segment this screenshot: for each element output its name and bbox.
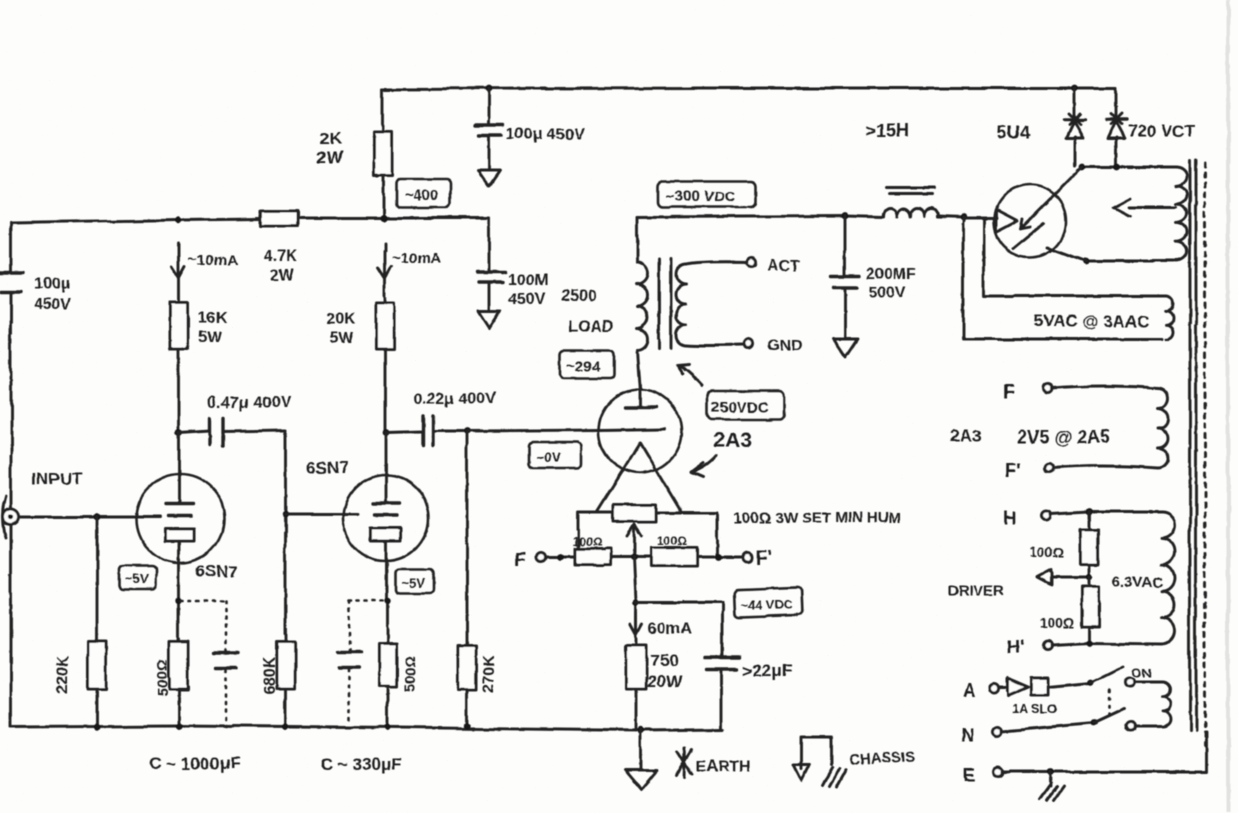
hum pot wiper arrow	[627, 525, 641, 557]
diode D2 triangle	[1107, 122, 1124, 139]
node F line left	[557, 554, 564, 561]
svg-text:680K: 680K	[261, 656, 278, 695]
wire V2 plate lead	[385, 433, 388, 502]
wire switch N to winding	[1134, 726, 1160, 729]
node 2K/4.7K/20K junction	[379, 214, 386, 221]
svg-text:100Ω: 100Ω	[657, 534, 687, 548]
5U4 plate diagonal lower	[1014, 224, 1086, 261]
coupling capacitor 0.47u 400V leads	[179, 430, 285, 433]
node F line right	[716, 554, 723, 561]
capacitor 100u 450V plates	[476, 125, 503, 135]
svg-text:1A SLO: 1A SLO	[1012, 701, 1058, 716]
svg-text:2W: 2W	[317, 148, 343, 167]
svg-text:~294: ~294	[566, 358, 600, 375]
node V2 cathode / bypass	[385, 598, 391, 604]
output transformer primary winding	[637, 262, 648, 350]
wire 680K / V2 grid node	[284, 430, 287, 729]
svg-text:~0V: ~0V	[536, 449, 562, 465]
triode V2 cathode	[371, 528, 401, 541]
wire bottom ground rail	[11, 726, 724, 731]
svg-text:~5V: ~5V	[402, 576, 426, 591]
tube 2A3 plate bar	[625, 405, 657, 408]
svg-text:2500: 2500	[561, 288, 597, 305]
svg-text:H: H	[1003, 508, 1016, 528]
wire V2 grid lead	[285, 513, 358, 516]
node rail 500ohm V2	[385, 725, 391, 731]
boxed label ~0V	[529, 442, 581, 468]
svg-text:~10mA: ~10mA	[188, 252, 238, 269]
svg-text:A: A	[962, 681, 975, 701]
node switch A pole	[1088, 679, 1095, 686]
terminal E	[994, 768, 1003, 777]
node rail 500ohm V1	[176, 724, 182, 730]
resistor R 750 20W body	[626, 645, 646, 689]
terminal A	[990, 684, 999, 693]
svg-text:5W: 5W	[329, 330, 354, 347]
capacitor 100u 450V (top) leads	[488, 89, 491, 171]
diode D1 lead	[1074, 88, 1075, 166]
boxed label ~300 VDC	[658, 181, 756, 207]
node rail 270K	[464, 723, 470, 729]
wire F to winding	[1052, 386, 1158, 388]
fuse 1A SLO triangle	[999, 686, 1007, 689]
node rail 220K	[94, 724, 100, 730]
wire top B+ rail	[383, 88, 1115, 89]
5U4 filament lead arrow	[963, 218, 997, 221]
node 270K / 2A3 grid	[464, 428, 471, 435]
resistor R 680K body	[276, 641, 294, 689]
current arrow 60mA	[630, 612, 642, 635]
chassis symbol staple	[801, 737, 831, 769]
tube 2A3 envelope	[598, 389, 682, 473]
svg-text:C ~ 1000μF: C ~ 1000μF	[150, 754, 240, 773]
svg-text:2V5 @ 2A5: 2V5 @ 2A5	[1017, 427, 1110, 447]
capacitor 100u 450V (mid) plates	[477, 272, 506, 282]
wire switch A to primary winding	[1134, 681, 1162, 684]
wire secondary GND lead	[686, 344, 744, 347]
terminal F'	[744, 553, 753, 562]
earth ground arrow	[625, 771, 657, 790]
node HV bottom	[1083, 258, 1090, 265]
wire N to switch	[1001, 723, 1094, 731]
svg-text:~5V: ~5V	[125, 572, 149, 587]
node V1 plate / coupling cap	[176, 430, 183, 437]
hum pot top line	[578, 513, 718, 557]
input jack terminal	[3, 509, 19, 525]
wire V1 plate lead	[178, 433, 181, 503]
fuse 1A SLO square	[1032, 678, 1049, 695]
node top rail / 100u cap	[486, 86, 493, 93]
wire E to transformer shield	[1002, 733, 1206, 772]
node HV top / D2	[1114, 164, 1121, 171]
resistor 100ohm upper leads	[1088, 512, 1091, 577]
resistor R 270K leads	[466, 431, 469, 726]
resistor R 270K body	[458, 645, 476, 689]
capacitor 100u 450V (mid) leads	[488, 218, 491, 311]
resistor R 4.7K 2W body	[260, 211, 298, 226]
triode V1 plate bar	[166, 502, 193, 505]
terminal F (2A3 filament)	[1044, 384, 1053, 393]
svg-text:2W: 2W	[270, 267, 295, 284]
node V2 plate / coupling cap 2	[383, 430, 390, 437]
terminal ACT	[747, 259, 756, 268]
capacitor 200MF 500V leads	[844, 216, 847, 338]
choke core lines	[886, 188, 934, 194]
output transformer core	[659, 259, 671, 348]
svg-text:INPUT: INPUT	[32, 469, 84, 488]
node H' 100ohm	[1086, 640, 1093, 647]
svg-text:N: N	[962, 724, 975, 744]
switch blade A	[1091, 666, 1124, 682]
node E ground	[1047, 769, 1054, 776]
transformer core dashed line	[1204, 163, 1207, 748]
capacitor C~1000uF dotted branch	[181, 601, 226, 727]
winding 2V5 2A5	[1158, 388, 1168, 468]
svg-text:C ~ 330μF: C ~ 330μF	[321, 755, 402, 774]
svg-text:~44 VDC: ~44 VDC	[740, 597, 794, 612]
ground hatch (E)	[1039, 772, 1063, 801]
svg-text:500Ω: 500Ω	[155, 659, 172, 696]
filament bus F-F'	[546, 556, 744, 559]
node rail cathode/earth	[637, 727, 645, 735]
svg-text:20K: 20K	[326, 311, 356, 328]
transformer core solid lines	[1190, 160, 1196, 731]
winding 6.3VAC	[1162, 512, 1175, 644]
triode V2 plate bar	[373, 501, 400, 504]
5VAC winding	[1166, 296, 1173, 339]
boxed label ~400	[396, 180, 450, 208]
capacitor 100u 450V (left) plates	[0, 273, 23, 292]
svg-text:500Ω: 500Ω	[402, 656, 419, 693]
resistor 100ohm (right) body	[651, 548, 697, 566]
chassis hatch	[822, 768, 846, 788]
svg-text:200MF: 200MF	[867, 265, 917, 282]
triode V2 6SN7 envelope	[343, 475, 429, 561]
switch blade N	[1094, 709, 1124, 723]
resistor R 500ohm (V2 cathode) body	[379, 643, 397, 687]
svg-text:F: F	[514, 550, 526, 571]
driver tap arrow	[1037, 569, 1089, 585]
ground arrow (200MF)	[833, 339, 857, 357]
primary winding	[1162, 682, 1170, 728]
capacitor C~330uF dotted branch	[349, 601, 388, 724]
triode V1 grid dashes	[168, 514, 191, 517]
chassis arrow	[793, 765, 809, 781]
svg-text:EARTH: EARTH	[696, 758, 751, 775]
node F line center	[630, 553, 637, 560]
svg-text:6SN7: 6SN7	[196, 562, 239, 581]
boxed label ~294	[560, 350, 614, 378]
capacitor C~1000uF plates	[214, 652, 238, 668]
svg-text:270K: 270K	[481, 653, 498, 692]
svg-text:2A3: 2A3	[713, 429, 752, 452]
terminal F'	[1045, 464, 1054, 473]
node driver tap	[1086, 574, 1092, 580]
wire cathode branch	[634, 557, 636, 731]
resistor R 220K body	[88, 641, 106, 689]
svg-text:2A3: 2A3	[950, 427, 981, 446]
svg-text:>22μF: >22μF	[743, 661, 793, 680]
HV center tap arrow	[1114, 199, 1176, 217]
capacitor 200MF plates	[830, 276, 860, 287]
svg-text:220K: 220K	[55, 655, 72, 694]
svg-text:750: 750	[650, 651, 678, 670]
svg-text:60mA: 60mA	[648, 621, 692, 638]
svg-text:720 VCT: 720 VCT	[1127, 122, 1195, 141]
diode D1 bar with cross	[1064, 118, 1085, 121]
triode V1 6SN7 envelope	[136, 475, 224, 563]
svg-text:H': H'	[1007, 637, 1024, 657]
switch contact N	[1126, 723, 1135, 732]
node switch N pole	[1091, 720, 1098, 727]
wire secondary ACT lead	[686, 263, 747, 265]
svg-text:5U4: 5U4	[998, 123, 1031, 143]
switch contact A	[1126, 678, 1135, 687]
wire V1 cathode lead	[178, 541, 181, 729]
diode D1 triangle	[1066, 122, 1083, 139]
diode D2 bar with cross	[1106, 118, 1126, 121]
output transformer primary lead	[636, 217, 639, 262]
ground arrow (top cap)	[478, 171, 500, 187]
capacitor C~330uF plates	[337, 652, 361, 668]
resistor R 20K 5W leads	[384, 278, 387, 433]
current arrow ~10mA stage2	[378, 243, 391, 278]
node rail 200MF	[842, 213, 849, 220]
svg-text:16K: 16K	[198, 310, 228, 327]
node rail choke out	[960, 215, 967, 222]
coupling capacitor 0.47u plates	[210, 418, 223, 445]
svg-text:100Ω: 100Ω	[1030, 543, 1065, 559]
svg-text:250VDC: 250VDC	[712, 399, 769, 416]
svg-text:~400: ~400	[404, 188, 438, 205]
svg-text:100M: 100M	[508, 272, 548, 289]
node V2 grid tap	[282, 511, 288, 517]
5U4 plate diagonal upper	[1020, 167, 1082, 229]
choke L 15H winding	[883, 209, 937, 217]
node 16K top	[176, 217, 182, 223]
svg-text:2K: 2K	[320, 129, 342, 148]
triode V1 cathode	[165, 529, 194, 541]
rectifier 5U4 envelope	[994, 185, 1066, 257]
HV secondary bottom lead	[1086, 260, 1174, 263]
svg-text:450V: 450V	[34, 296, 72, 313]
svg-text:0.47μ 400V: 0.47μ 400V	[208, 394, 291, 411]
coupling capacitor 0.22u 400V leads	[386, 431, 467, 433]
boxed label ~5V (V2)	[396, 570, 434, 594]
HV secondary winding 720VCT	[1176, 167, 1187, 261]
svg-text:6.3VAC: 6.3VAC	[1112, 574, 1164, 591]
wire input to grid V1	[19, 516, 160, 519]
resistor R 500ohm (V1 cathode) body	[170, 641, 188, 689]
output transformer secondary winding	[676, 265, 686, 345]
resistor R 16K 5W leads	[178, 278, 181, 433]
node rail 680K	[282, 724, 288, 730]
svg-text:~10mA: ~10mA	[392, 250, 442, 267]
diode D2 lead	[1115, 88, 1116, 166]
svg-text:100Ω 3W SET MIN HUM: 100Ω 3W SET MIN HUM	[734, 510, 901, 527]
boxed label ~44 VDC	[734, 587, 803, 617]
coupling capacitor 0.22u plates	[423, 416, 433, 446]
node cathode branch	[633, 599, 640, 606]
svg-text:5W: 5W	[198, 330, 223, 347]
svg-text:6SN7: 6SN7	[306, 458, 349, 477]
svg-text:100Ω: 100Ω	[572, 535, 602, 549]
terminal F	[537, 553, 546, 562]
svg-text:E: E	[964, 765, 976, 785]
terminal H	[1042, 511, 1051, 520]
earth drop wire	[640, 731, 643, 770]
boxed label ~5V (V1)	[119, 566, 156, 590]
earth asterisk mark	[676, 748, 692, 777]
svg-text:~300 VDC: ~300 VDC	[666, 188, 736, 205]
svg-text:500V: 500V	[869, 284, 907, 301]
node top rail / diode D1	[1071, 85, 1078, 92]
page edge shadow	[1226, 0, 1230, 813]
svg-text:4.7K: 4.7K	[264, 248, 298, 265]
boxed label 250VDC	[708, 391, 784, 419]
svg-text:F: F	[1003, 382, 1015, 403]
svg-text:100μ: 100μ	[34, 276, 70, 293]
wire 2A3 B+ rail	[637, 216, 963, 218]
svg-text:ON: ON	[1132, 665, 1152, 680]
annotation arrow to plate	[678, 364, 703, 385]
svg-text:5VAC @ 3AAC: 5VAC @ 3AAC	[1033, 312, 1149, 331]
wire H' to winding	[1052, 643, 1162, 645]
wire 2A3 grid line	[467, 429, 665, 431]
5VAC winding bottom lead	[963, 218, 1162, 339]
resistor R 20K 5W body	[376, 303, 394, 349]
terminal N	[993, 727, 1002, 736]
svg-text:DRIVER: DRIVER	[947, 583, 1004, 600]
terminal GND	[745, 340, 754, 349]
capacitor 22uF branch	[636, 602, 722, 729]
svg-text:ACT: ACT	[766, 258, 799, 275]
svg-text:450V: 450V	[508, 291, 546, 308]
svg-text:F': F'	[756, 548, 772, 569]
svg-text:LOAD: LOAD	[569, 318, 614, 335]
node V1 cathode / bypass	[176, 598, 182, 604]
wire second rail	[11, 218, 489, 223]
tube 2A3 plate lead from transformer	[637, 350, 640, 407]
wire fuse to switch	[1049, 683, 1091, 687]
current arrow ~10mA stage1	[172, 243, 185, 278]
wire H to winding	[1050, 512, 1162, 514]
HV secondary top lead	[1082, 166, 1176, 169]
node H 100ohm	[1086, 509, 1093, 516]
annotation arrow to filament	[691, 456, 716, 477]
node input / 220K	[94, 514, 101, 521]
5VAC winding top lead	[984, 221, 1166, 296]
hum pot body	[613, 505, 656, 522]
resistor 100ohm lower body	[1082, 587, 1099, 627]
capacitor 22uF plates	[704, 657, 740, 669]
svg-text:100Ω: 100Ω	[1039, 615, 1074, 631]
wire F' to winding	[1053, 466, 1158, 468]
resistor 100ohm upper body	[1081, 529, 1098, 564]
resistor R 220K leads	[96, 517, 99, 728]
resistor R 2K 2W leads	[382, 89, 385, 218]
ground arrow (mid cap)	[478, 311, 500, 328]
resistor R 16K 5W body	[170, 303, 188, 350]
svg-text:>15H: >15H	[866, 121, 910, 141]
svg-text:0.22μ 400V: 0.22μ 400V	[413, 391, 496, 408]
svg-text:20W: 20W	[647, 672, 683, 691]
resistor R 2K 2W body	[374, 132, 392, 176]
svg-text:F': F'	[1005, 461, 1021, 482]
svg-text:100μ 450V: 100μ 450V	[506, 126, 585, 143]
node HV top / D1	[1079, 164, 1086, 171]
resistor 100ohm lower leads	[1088, 577, 1091, 643]
svg-text:GND: GND	[768, 338, 804, 355]
triode V2 grid dashes	[374, 513, 398, 516]
resistor 100ohm (left) body	[575, 549, 610, 565]
wire left vertical with decoupling cap	[10, 223, 13, 727]
switch gang dotted link	[1108, 690, 1111, 717]
wire V2 cathode lead	[387, 541, 388, 730]
tube 2A3 filament	[596, 443, 682, 513]
terminal H'	[1044, 641, 1053, 650]
